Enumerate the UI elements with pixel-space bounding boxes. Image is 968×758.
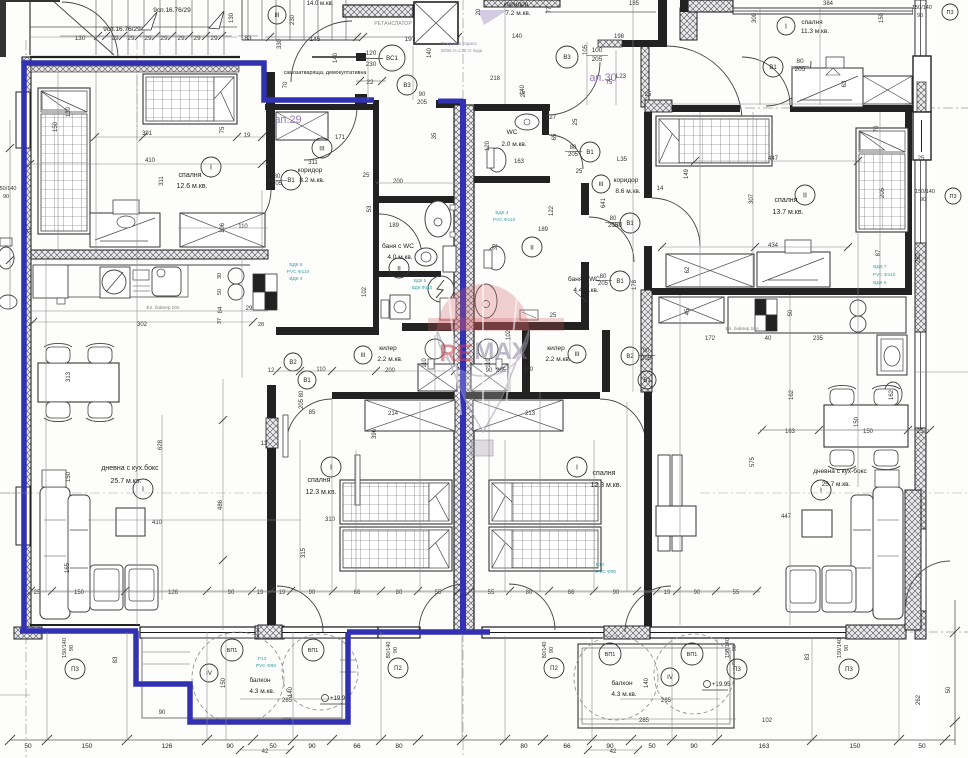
svg-text:122: 122 bbox=[549, 205, 555, 216]
blue bottom left segment bbox=[20, 628, 138, 634]
window top edge bbox=[733, 8, 913, 14]
door arc bath ap30 bbox=[589, 217, 634, 262]
kitchen fridge ap29 bbox=[33, 265, 68, 298]
svg-text:12: 12 bbox=[268, 368, 275, 374]
chairs ap31 bbox=[830, 389, 854, 405]
kitchen dw ap29 bbox=[133, 270, 149, 280]
svg-text:110: 110 bbox=[422, 358, 428, 368]
watermark corner swoosh bbox=[478, 10, 508, 25]
svg-text:235: 235 bbox=[813, 336, 824, 342]
svg-text:140: 140 bbox=[644, 677, 650, 688]
svg-text:8.6 м.кв.: 8.6 м.кв. bbox=[615, 188, 640, 195]
svg-text:150: 150 bbox=[879, 12, 885, 23]
oval ap30 bath big bbox=[483, 135, 485, 137]
svg-text:70: 70 bbox=[283, 81, 289, 88]
dim chain balcony29 bbox=[240, 698, 340, 700]
circle II bath ap30 bbox=[522, 237, 542, 257]
svg-text:80/140: 80/140 bbox=[542, 642, 548, 659]
svg-text:45: 45 bbox=[685, 308, 691, 315]
svg-text:66: 66 bbox=[563, 743, 571, 750]
svg-text:315: 315 bbox=[301, 547, 307, 558]
vestibule wall stub b bbox=[355, 94, 367, 106]
svg-text:87: 87 bbox=[876, 249, 882, 256]
circle P3 right mid bbox=[945, 188, 961, 204]
svg-text:25: 25 bbox=[363, 173, 370, 179]
wall entry top ap30 bbox=[598, 40, 667, 47]
svg-text:50/140: 50/140 bbox=[0, 186, 16, 192]
svg-text:40: 40 bbox=[765, 336, 772, 342]
svg-text:самозатваряща, демокултативна: самозатваряща, демокултативна bbox=[284, 70, 367, 76]
tv stand ap31 bbox=[656, 506, 696, 536]
svg-text:150: 150 bbox=[66, 471, 72, 482]
svg-text:50: 50 bbox=[918, 743, 926, 750]
wall wc right ap30 bbox=[542, 111, 549, 135]
wall seg hatch pier 11.3 bbox=[680, 8, 697, 40]
axis horizontal living right bbox=[700, 492, 968, 494]
svg-text:110: 110 bbox=[316, 367, 326, 373]
svg-text:7.2 м.кв.: 7.2 м.кв. bbox=[505, 10, 530, 17]
wardrobe killer left bbox=[418, 364, 457, 391]
toilet ap30 wc bbox=[488, 148, 506, 172]
wall wc top ap30 bbox=[474, 104, 550, 111]
svg-text:Покривна тераса: Покривна тераса bbox=[441, 41, 477, 46]
armchair ap31 b bbox=[822, 566, 856, 612]
circle II bedroom 13.7 bbox=[795, 185, 815, 205]
svg-text:65: 65 bbox=[552, 133, 558, 140]
svg-text:B3: B3 bbox=[563, 55, 571, 61]
shelf bedroom2 left wall bbox=[69, 0, 71, 1]
svg-text:баня с WC: баня с WC bbox=[382, 242, 414, 250]
svg-text:ап.29: ап.29 bbox=[274, 114, 301, 126]
wardrobe killer right bbox=[471, 364, 508, 391]
balcony ap29 swing circle a bbox=[192, 632, 284, 724]
svg-text:Р13: Р13 bbox=[258, 656, 267, 662]
svg-text:I: I bbox=[210, 165, 212, 172]
radiator ap30 bedroom bbox=[299, 221, 301, 223]
armchair ap29 b bbox=[125, 565, 158, 610]
svg-text:PVC Ф110: PVC Ф110 bbox=[287, 269, 310, 275]
watermark balloon panels bbox=[449, 284, 517, 430]
corner wall top-left bbox=[0, 0, 6, 57]
circle III landing bbox=[268, 6, 286, 24]
balcony door arc bed2l bbox=[419, 584, 465, 630]
boiler killer left bbox=[425, 339, 445, 359]
svg-text:70: 70 bbox=[874, 125, 880, 132]
svg-text:ВДК 4: ВДК 4 bbox=[495, 210, 508, 216]
dim 628 line bbox=[222, 384, 224, 590]
watermark balloon lower bbox=[437, 330, 529, 432]
circle B1 ap29 bed2 bbox=[298, 371, 316, 389]
svg-text:11.3 м.кв.: 11.3 м.кв. bbox=[801, 28, 830, 35]
circle P3 topright bbox=[942, 4, 958, 20]
circle VP1 balcony c bbox=[599, 643, 621, 665]
toilet ap29 bath bbox=[415, 248, 437, 266]
svg-text:84: 84 bbox=[218, 306, 224, 313]
svg-text:32: 32 bbox=[493, 243, 499, 250]
door arc bedroom 11.3 bbox=[742, 57, 790, 105]
circle P2 right bbox=[544, 658, 564, 678]
wall left bedroom 11.3 bbox=[680, 0, 688, 12]
svg-text:90: 90 bbox=[920, 197, 926, 203]
svg-text:80: 80 bbox=[570, 145, 577, 151]
svg-text:66: 66 bbox=[353, 743, 361, 750]
balcony ap30 outline bbox=[578, 644, 734, 728]
sofa ap29 bbox=[40, 487, 70, 619]
bed horizontal ap29 bedroom1 bbox=[143, 74, 237, 124]
wall corridor top ap29 bbox=[265, 104, 376, 110]
wall bath top ap29 bbox=[379, 196, 458, 203]
svg-text:384: 384 bbox=[823, 1, 834, 7]
shelf tall bedroom2 right bbox=[658, 455, 670, 551]
coffee table ap29 bbox=[116, 508, 145, 536]
svg-text:313: 313 bbox=[66, 371, 72, 382]
svg-text:дневна с кух-бокс: дневна с кух-бокс bbox=[813, 467, 867, 475]
kitchen counter ap29 bbox=[33, 264, 250, 266]
svg-text:83: 83 bbox=[113, 656, 119, 663]
stair tread dims bbox=[60, 32, 232, 42]
svg-text:396: 396 bbox=[372, 428, 378, 439]
svg-text:ВП1: ВП1 bbox=[687, 652, 698, 658]
svg-text:140: 140 bbox=[512, 34, 523, 40]
svg-text:B1: B1 bbox=[616, 279, 624, 285]
blue central vertical bbox=[460, 99, 466, 634]
svg-text:2.0 м.кв.: 2.0 м.кв. bbox=[501, 141, 526, 148]
towel rad ap30 bath bbox=[520, 310, 538, 320]
svg-text:П3: П3 bbox=[845, 667, 853, 673]
svg-text:19: 19 bbox=[244, 133, 251, 139]
svg-text:77: 77 bbox=[547, 6, 553, 13]
svg-text:105: 105 bbox=[583, 44, 589, 55]
svg-text:150/140: 150/140 bbox=[837, 638, 843, 658]
circle B1 bath2 ap30 bbox=[610, 271, 630, 291]
kitchen dim 302 bbox=[31, 321, 255, 323]
stairs top-center treads bbox=[242, 0, 360, 40]
svg-text:434: 434 bbox=[768, 243, 779, 249]
svg-text:PVC Ф110: PVC Ф110 bbox=[873, 272, 896, 278]
svg-text:486: 486 bbox=[218, 499, 224, 510]
svg-text:90: 90 bbox=[419, 92, 426, 98]
svg-text:205: 205 bbox=[641, 356, 652, 362]
bed vertical ap29 bedroom1 bbox=[38, 88, 90, 234]
door arc bedroom1 bbox=[225, 190, 271, 236]
watermark stripe bbox=[428, 318, 564, 331]
circle VP1 balcony a bbox=[221, 639, 243, 661]
svg-text:50: 50 bbox=[648, 743, 656, 750]
svg-text:311: 311 bbox=[308, 160, 318, 166]
window left bedroom bbox=[16, 92, 30, 148]
balcony door arc bed2r bbox=[509, 584, 555, 630]
svg-text:25.7 м.кв.: 25.7 м.кв. bbox=[822, 481, 851, 488]
wall outer right with windows bbox=[913, 0, 929, 758]
svg-text:130: 130 bbox=[612, 223, 623, 229]
svg-text:В14: В14 bbox=[596, 562, 605, 568]
circle III corridor ap29 bbox=[312, 138, 332, 158]
circle B2 ap29 bbox=[284, 353, 302, 371]
svg-text:205: 205 bbox=[592, 56, 603, 63]
svg-text:149: 149 bbox=[684, 168, 690, 179]
window left living bbox=[16, 487, 30, 545]
svg-text:90: 90 bbox=[549, 647, 555, 653]
circle B1 wc ap30 bbox=[580, 142, 600, 162]
wall corridor bottom ap29 bbox=[276, 327, 376, 335]
wall bottom living left bbox=[30, 624, 140, 626]
svg-text:90: 90 bbox=[393, 647, 399, 653]
svg-text:262: 262 bbox=[916, 252, 922, 263]
circle I bedroom2 right bbox=[567, 457, 587, 477]
bed A bedroom2 left bbox=[340, 480, 452, 524]
svg-text:62: 62 bbox=[685, 266, 691, 273]
dim chain bedroom bottoms bbox=[30, 590, 460, 592]
svg-text:III: III bbox=[574, 352, 579, 358]
watermark balloon canopy bbox=[437, 284, 529, 330]
svg-text:214: 214 bbox=[388, 411, 399, 417]
svg-text:B1: B1 bbox=[643, 378, 651, 384]
svg-text:300: 300 bbox=[752, 12, 758, 23]
svg-text:дневна с кух.бокс: дневна с кух.бокс bbox=[101, 464, 159, 472]
bottom dimension row bbox=[5, 735, 955, 755]
wall central party bbox=[454, 105, 474, 632]
desk ap31 bedroom bbox=[792, 68, 863, 107]
svg-text:310: 310 bbox=[325, 517, 336, 523]
stove checker ap29 bbox=[253, 274, 265, 292]
stairs top-left treads bbox=[30, 0, 237, 55]
svg-text:106: 106 bbox=[220, 222, 226, 233]
axis vertical bed left bbox=[136, 40, 138, 140]
right dim line bbox=[954, 600, 956, 745]
svg-text:163: 163 bbox=[759, 743, 770, 750]
circle IV balcony ap29 bbox=[200, 664, 218, 682]
kitchen sink ap31 bbox=[850, 300, 866, 316]
wall top edge right bbox=[688, 0, 733, 12]
svg-text:4.3 м.кв.: 4.3 м.кв. bbox=[249, 688, 274, 695]
svg-text:II: II bbox=[397, 265, 401, 272]
svg-text:102: 102 bbox=[762, 718, 773, 724]
svg-text:14.0 м.кв.: 14.0 м.кв. bbox=[307, 1, 334, 7]
svg-text:B2: B2 bbox=[289, 360, 297, 366]
svg-text:III: III bbox=[360, 353, 365, 359]
svg-text:22: 22 bbox=[366, 79, 374, 86]
svg-text:230: 230 bbox=[290, 14, 296, 25]
sink ap29 bath bbox=[425, 201, 451, 237]
svg-text:171: 171 bbox=[335, 135, 346, 141]
circle III wc ap30 bbox=[592, 175, 610, 193]
left edge fixtures bbox=[0, 247, 14, 269]
svg-text:90: 90 bbox=[226, 743, 234, 750]
wall outer left hatched bbox=[22, 57, 31, 632]
svg-text:410: 410 bbox=[152, 520, 163, 526]
svg-text:коридор: коридор bbox=[298, 167, 323, 174]
door arc bed2r east bbox=[625, 586, 671, 632]
wall bath bottom ap30 bbox=[474, 322, 589, 330]
dining table ap31 bbox=[824, 405, 908, 447]
svg-text:спалня: спалня bbox=[308, 477, 331, 484]
svg-text:150: 150 bbox=[82, 743, 93, 750]
svg-text:III: III bbox=[319, 145, 325, 152]
circle IV balcony ap30 bbox=[661, 668, 679, 686]
kitchen stove ap29 bbox=[100, 267, 130, 298]
door arc bed2l west bbox=[277, 586, 323, 632]
vestibule door arc bbox=[291, 21, 352, 82]
svg-text:150/140: 150/140 bbox=[62, 638, 68, 658]
svg-text:III: III bbox=[274, 13, 279, 19]
svg-text:130: 130 bbox=[66, 106, 72, 117]
svg-text:80: 80 bbox=[520, 743, 528, 750]
door arc bedroom 13.7 top bbox=[766, 61, 811, 106]
circle I living ap29 bbox=[133, 479, 153, 499]
wall right bedroom1 bbox=[266, 72, 275, 190]
svg-text:ап.30: ап.30 bbox=[589, 72, 616, 84]
svg-text:28: 28 bbox=[258, 322, 264, 328]
svg-text:L23: L23 bbox=[616, 74, 627, 80]
svg-text:75: 75 bbox=[220, 126, 226, 133]
svg-text:спалня: спалня bbox=[775, 197, 798, 204]
svg-text:102: 102 bbox=[362, 286, 368, 297]
svg-text:килер: килер bbox=[379, 345, 397, 352]
svg-text:575: 575 bbox=[750, 456, 756, 467]
svg-text:90: 90 bbox=[486, 368, 493, 374]
svg-text:2.2 м.кв.: 2.2 м.кв. bbox=[545, 356, 570, 363]
left dim verticals bbox=[9, 120, 11, 310]
wall bathroom left ap29 bbox=[373, 100, 379, 335]
svg-text:балкон: балкон bbox=[611, 679, 633, 687]
wall killer left ap30 bbox=[522, 330, 530, 392]
sink ap30 wc bbox=[515, 114, 539, 130]
radiator bedroom2 left bbox=[283, 415, 288, 457]
door arc bath ap29 bbox=[379, 214, 422, 257]
svg-text:205: 205 bbox=[417, 100, 428, 106]
bench bath29 bbox=[440, 298, 456, 320]
svg-text:спалня: спалня bbox=[179, 172, 202, 179]
svg-text:L27: L27 bbox=[546, 115, 557, 121]
svg-text:I: I bbox=[820, 488, 822, 495]
svg-text:172: 172 bbox=[705, 336, 716, 342]
svg-text:80: 80 bbox=[796, 58, 804, 65]
svg-text:90: 90 bbox=[159, 710, 166, 716]
svg-text:205: 205 bbox=[299, 398, 305, 409]
wall bath right ap30 bbox=[581, 183, 589, 215]
blue boundary main loop bbox=[24, 63, 374, 632]
balcony ap29 swing circle b bbox=[282, 634, 358, 710]
boiler killer right bbox=[478, 339, 498, 359]
svg-text:4.0 м.кв.: 4.0 м.кв. bbox=[387, 254, 412, 261]
dim chain balcony30 bbox=[620, 698, 720, 700]
svg-text:80: 80 bbox=[600, 274, 607, 280]
wall top edge center bbox=[484, 0, 560, 7]
svg-text:130: 130 bbox=[229, 12, 235, 23]
svg-text:641: 641 bbox=[601, 197, 607, 208]
axis horizontal living left bbox=[0, 492, 270, 494]
svg-text:90: 90 bbox=[690, 743, 698, 750]
svg-text:120: 120 bbox=[366, 50, 377, 57]
circle I living ap31 bbox=[811, 480, 831, 500]
dim chain corridor29 bbox=[273, 367, 281, 375]
coffee table ap31 b bbox=[639, 269, 641, 271]
svg-text:килер: килер bbox=[547, 345, 565, 352]
circle B2 ap30 bbox=[621, 347, 639, 365]
svg-text:80/140: 80/140 bbox=[386, 642, 392, 659]
circle VP1 balcony b bbox=[302, 639, 324, 661]
wardrobe bedroom1 ap29 bbox=[180, 213, 265, 247]
svg-text:Ел. бойлер 10л: Ел. бойлер 10л bbox=[147, 304, 180, 310]
svg-text:50: 50 bbox=[24, 743, 32, 750]
wall hatch top-center bbox=[343, 5, 413, 17]
svg-text:RE: RE bbox=[439, 340, 472, 367]
wall killer-bedroom ap29 bbox=[332, 392, 464, 399]
svg-text:150/140: 150/140 bbox=[725, 638, 731, 658]
svg-text:80: 80 bbox=[299, 390, 305, 397]
circle III killer ap29 bbox=[354, 346, 372, 364]
svg-text:П3: П3 bbox=[949, 194, 956, 200]
wall right inner x905 bbox=[905, 112, 912, 295]
bed B bedroom2 left bbox=[340, 527, 452, 571]
svg-text:410: 410 bbox=[145, 158, 156, 164]
wall bath mid ap29 bbox=[376, 271, 441, 277]
svg-text:205: 205 bbox=[795, 66, 806, 73]
svg-text:50: 50 bbox=[946, 686, 952, 693]
svg-text:25: 25 bbox=[918, 156, 925, 162]
svg-text:205: 205 bbox=[880, 187, 886, 198]
svg-text:B3: B3 bbox=[403, 83, 411, 89]
circle I bedroom2 left bbox=[321, 457, 341, 477]
svg-text:53: 53 bbox=[367, 205, 373, 212]
stair direction arrow 2 bbox=[209, 11, 224, 29]
wardrobe corridor ap29 bbox=[276, 112, 328, 140]
svg-text:ВП1: ВП1 bbox=[308, 648, 319, 654]
balcony ap30 swing circle b bbox=[654, 634, 734, 714]
svg-text:PVC Ф90: PVC Ф90 bbox=[256, 663, 277, 669]
dining table ap29 bbox=[38, 363, 119, 402]
balcony ap29 inner rail bbox=[142, 638, 342, 718]
svg-text:110: 110 bbox=[238, 224, 248, 230]
circle B1 bath ap30 bbox=[620, 213, 640, 233]
svg-text:2.2 м.кв.: 2.2 м.кв. bbox=[377, 356, 402, 363]
svg-text:4.4 м.кв.: 4.4 м.кв. bbox=[573, 287, 598, 294]
dim chain right bottoms bbox=[468, 590, 760, 592]
svg-text:189: 189 bbox=[389, 223, 400, 229]
blue stub bath door bbox=[438, 99, 463, 104]
svg-text:B1: B1 bbox=[287, 178, 295, 184]
wardrobe bedroom2 right bbox=[473, 400, 563, 431]
svg-text:ВП1: ВП1 bbox=[227, 648, 238, 654]
svg-text:13.7 м.кв.: 13.7 м.кв. bbox=[772, 209, 803, 216]
washer ap29 bath bbox=[390, 295, 410, 319]
wall top bedroom1 bbox=[30, 56, 240, 58]
desk bedroom1 ap29 bbox=[90, 213, 160, 247]
svg-text:80: 80 bbox=[610, 216, 617, 222]
svg-text:П3: П3 bbox=[71, 667, 79, 673]
door arc wc ap30 bbox=[549, 135, 583, 169]
svg-text:П2: П2 bbox=[394, 666, 402, 672]
circle BC1 bbox=[379, 45, 405, 71]
svg-text:L35: L35 bbox=[617, 157, 628, 163]
svg-text:8.2 м.кв.: 8.2 м.кв. bbox=[299, 177, 324, 184]
svg-text:163: 163 bbox=[514, 159, 525, 165]
bath oval ap30 corridorside bbox=[485, 300, 487, 302]
svg-text:PVC Ф110: PVC Ф110 bbox=[493, 217, 516, 223]
chairs ap29 bbox=[46, 347, 70, 363]
svg-text:ВДК 5: ВДК 5 bbox=[289, 262, 302, 268]
corner door arc bbox=[62, 2, 118, 57]
svg-text:14: 14 bbox=[657, 186, 664, 192]
svg-text:100: 100 bbox=[592, 47, 603, 54]
door arc living ap31 bbox=[906, 561, 950, 605]
toilet ap30 bath bbox=[487, 246, 505, 270]
svg-text:П3: П3 bbox=[946, 10, 953, 16]
svg-text:140: 140 bbox=[427, 47, 433, 58]
circle I bedroom1 bbox=[201, 157, 221, 177]
kitchen counter ap31 bbox=[728, 297, 906, 333]
svg-text:ВДК 5: ВДК 5 bbox=[414, 278, 427, 283]
